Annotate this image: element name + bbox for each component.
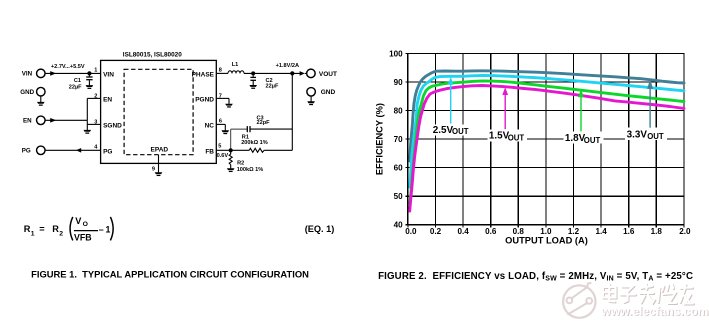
schematic text labels	[20, 70, 337, 155]
svg-text:8: 8	[219, 67, 222, 73]
svg-text:3.3V: 3.3V	[627, 129, 648, 140]
svg-text:2.0: 2.0	[679, 227, 691, 236]
svg-text:PHASE: PHASE	[192, 71, 215, 78]
svg-text:OUT: OUT	[584, 136, 601, 145]
svg-text:OUT: OUT	[647, 132, 664, 141]
svg-text:+1.8V/2A: +1.8V/2A	[276, 63, 299, 69]
svg-text:O: O	[83, 221, 88, 228]
wire pin 9 EPAD	[158, 155, 160, 173]
svg-text:VIN: VIN	[22, 70, 33, 77]
wire VIN terminal to pin 1	[45, 71, 101, 76]
svg-text:0.2: 0.2	[430, 227, 442, 236]
svg-text:0.6V: 0.6V	[217, 153, 229, 159]
curve 1.8VOUT (green)	[410, 81, 684, 206]
svg-text:40: 40	[394, 221, 404, 230]
chart tick labels	[389, 49, 691, 236]
svg-text:EFFICIENCY (%): EFFICIENCY (%)	[375, 103, 385, 175]
IC U1 ISL80015/ISL80020 regulator body	[101, 60, 217, 163]
node FB junction	[229, 148, 233, 152]
svg-text:OUT: OUT	[452, 127, 469, 136]
ground (input GND terminal)	[37, 96, 45, 106]
ground (C1)	[86, 85, 94, 87]
svg-text:1.4: 1.4	[595, 227, 607, 236]
svg-text:3: 3	[94, 120, 97, 126]
svg-text:OUT: OUT	[508, 134, 525, 143]
svg-text:ISL80015, ISL80020: ISL80015, ISL80020	[123, 52, 182, 59]
wire pin 4 to PG terminal	[45, 148, 101, 153]
svg-text:GND: GND	[20, 89, 34, 96]
svg-text:2.5V: 2.5V	[433, 125, 454, 136]
curve 2.5VOUT (cyan)	[410, 76, 684, 188]
svg-text:FIGURE 1. TYPICAL APPLICATION: FIGURE 1. TYPICAL APPLICATION CIRCUIT CO…	[31, 268, 309, 279]
svg-text:SGND: SGND	[103, 122, 122, 129]
svg-text:OUTPUT LOAD (A): OUTPUT LOAD (A)	[505, 235, 588, 245]
wire SGND pin 3 stub	[87, 120, 100, 130]
svg-text:VOUT: VOUT	[319, 71, 337, 78]
svg-text:50: 50	[394, 192, 404, 201]
svg-text:22pF: 22pF	[257, 120, 271, 126]
ground (NC)	[222, 130, 230, 132]
svg-text:PG: PG	[103, 148, 112, 155]
wire EN terminal to pin 2	[45, 98, 101, 122]
svg-text:1: 1	[31, 230, 35, 237]
svg-text:80: 80	[394, 106, 404, 115]
wire C3 left segment	[231, 128, 247, 130]
wire L1 to VOUT	[244, 71, 306, 76]
pointer arrow 2.5VOUT (cyan)	[448, 77, 454, 124]
label white patches	[432, 125, 667, 144]
chart frame	[408, 53, 684, 224]
svg-text:200kΩ 1%: 200kΩ 1%	[241, 140, 268, 146]
pointer arrow 3.3VOUT (teal)	[647, 79, 653, 128]
svg-text:EN: EN	[23, 118, 32, 125]
ground (PGND)	[225, 104, 233, 106]
svg-text:R2: R2	[237, 160, 244, 166]
equation EQ.1	[24, 216, 335, 242]
pointer arrow 1.5VOUT (magenta)	[502, 87, 508, 129]
terminal GND (input)	[37, 87, 46, 96]
svg-text:GND: GND	[321, 89, 336, 96]
wire pin 6 NC to ground	[216, 124, 225, 130]
svg-text:5: 5	[218, 144, 221, 150]
svg-text:VFB: VFB	[74, 232, 92, 242]
svg-text:PG: PG	[22, 148, 31, 155]
node L1/C2 junction	[251, 71, 255, 75]
svg-text:1.6: 1.6	[623, 227, 635, 236]
EPAD dashed box	[124, 69, 193, 154]
svg-text:1.8V: 1.8V	[565, 133, 586, 144]
svg-text:9: 9	[152, 166, 155, 172]
wire pin 8 PHASE to L1	[216, 72, 228, 74]
watermark chinese characters (stylized, embossed)	[604, 285, 694, 305]
svg-text:2: 2	[59, 230, 63, 237]
svg-text:0.0: 0.0	[405, 227, 417, 236]
capacitor C3 22pF	[247, 126, 250, 132]
node VIN/C1 junction	[87, 71, 91, 75]
svg-text:60: 60	[394, 164, 404, 173]
resistor R1 200k	[231, 148, 293, 152]
svg-text:(EQ. 1): (EQ. 1)	[305, 224, 335, 234]
svg-text:100: 100	[389, 49, 403, 58]
node VOUT/feedback junction	[290, 71, 294, 75]
svg-text:2: 2	[94, 93, 97, 99]
svg-text:22µF: 22µF	[266, 83, 279, 89]
ground (SGND)	[84, 130, 92, 132]
capacitor C1 22uF	[86, 73, 92, 85]
terminal VIN	[37, 69, 46, 78]
svg-text:6: 6	[219, 119, 222, 125]
svg-text:– 1: – 1	[99, 224, 111, 234]
svg-text:0.6: 0.6	[485, 227, 497, 236]
svg-text:VIN: VIN	[103, 71, 114, 78]
terminal PG	[37, 146, 46, 155]
svg-text:1: 1	[94, 67, 97, 73]
chart grid	[405, 53, 684, 227]
svg-text:R: R	[24, 224, 31, 234]
svg-text:1.8: 1.8	[651, 227, 663, 236]
ground (R2)	[227, 168, 235, 170]
curve 1.5VOUT (magenta)	[410, 86, 684, 212]
wire C3 right segment to output bus	[250, 128, 292, 130]
wire pin 5 FB stub	[216, 149, 230, 151]
ground (C2)	[249, 85, 257, 87]
svg-text:=: =	[39, 224, 44, 234]
svg-text:R: R	[52, 224, 59, 234]
svg-text:90: 90	[394, 78, 404, 87]
watermark logo disc	[563, 283, 595, 318]
wire FB node riser to C3	[230, 129, 232, 150]
svg-text:EPAD: EPAD	[151, 147, 169, 154]
wire output feedback bus	[291, 73, 293, 150]
capacitor C2 22uF	[250, 73, 256, 85]
ground (output GND terminal)	[307, 96, 315, 105]
svg-text:FIGURE 2. EFFICIENCY vs LOAD,: FIGURE 2. EFFICIENCY vs LOAD, fSW = 2MHz…	[378, 271, 693, 283]
svg-text:0.4: 0.4	[457, 227, 469, 236]
curve 3.3VOUT (teal)	[410, 71, 684, 161]
terminal EN	[37, 116, 46, 125]
pointer arrow 1.8VOUT (green)	[578, 89, 584, 131]
svg-text:1.5V: 1.5V	[489, 130, 510, 141]
svg-text:C1: C1	[74, 78, 81, 84]
resistor R2 100k	[229, 150, 232, 168]
svg-text:PGND: PGND	[195, 96, 214, 103]
wire pin 7 PGND to ground	[216, 98, 229, 104]
ground (EPAD pin 9)	[155, 172, 163, 174]
terminal GND (output)	[307, 88, 316, 97]
svg-text:22µF: 22µF	[69, 84, 82, 90]
svg-text:100kΩ 1%: 100kΩ 1%	[237, 167, 264, 173]
svg-text:V: V	[75, 216, 82, 226]
svg-text:FB: FB	[205, 148, 214, 155]
terminal VOUT	[307, 69, 316, 78]
svg-text:L1: L1	[232, 62, 239, 68]
svg-text:NC: NC	[205, 122, 215, 129]
svg-text:70: 70	[394, 135, 404, 144]
svg-text:+2.7V...+5.5V: +2.7V...+5.5V	[51, 64, 85, 70]
inductor L1	[228, 71, 244, 74]
svg-text:7: 7	[219, 93, 222, 99]
svg-text:EN: EN	[103, 96, 112, 103]
svg-text:www.elecfans.com: www.elecfans.com	[601, 304, 709, 318]
